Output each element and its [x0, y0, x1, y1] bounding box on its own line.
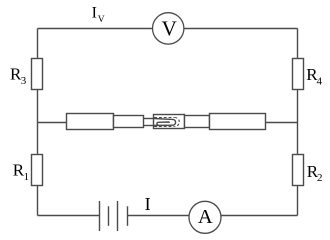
thermometer neck left — [114, 116, 144, 128]
voltmeter V — [153, 13, 184, 44]
wire right vertical middle (R4 to R2) — [297, 90, 299, 155]
battery plate long 2 — [117, 201, 119, 231]
wire left vertical lower (R1 to bottom corner) — [37, 186, 39, 216]
wire ammeter to bottom-right corner — [220, 215, 297, 217]
wire left vertical middle (R3 to R1) — [37, 90, 39, 155]
lead wire bottom — [144, 125, 154, 127]
sensor sheath dashed top — [154, 117, 174, 119]
battery plate short 1 — [108, 206, 110, 226]
wire bottom-left to battery — [38, 215, 100, 217]
wire battery to ammeter — [128, 215, 190, 217]
resistor R3 — [32, 59, 43, 90]
sensing element hairpin inner fold — [157, 122, 169, 125]
battery plate long 1 — [99, 201, 101, 231]
svg-text:A: A — [198, 206, 213, 228]
label R3 — [10, 64, 27, 86]
wire top-left to voltmeter — [38, 28, 154, 30]
thermometer body box left — [67, 114, 114, 130]
svg-text:4: 4 — [317, 75, 323, 87]
resistor R1 — [32, 155, 43, 186]
thermometer body box right — [210, 114, 266, 130]
wire voltmeter to top-right corner — [184, 28, 298, 30]
label R4 — [306, 65, 322, 88]
svg-text:V: V — [98, 15, 105, 25]
wire middle left (node to thermometer body) — [38, 122, 67, 124]
ammeter A — [189, 201, 221, 233]
wire right vertical lower (R2 to bottom corner) — [297, 186, 299, 216]
label I — [145, 194, 151, 214]
svg-text:I: I — [145, 194, 151, 214]
sensor sheath dashed bottom — [154, 126, 174, 128]
sensing element hairpin outer — [154, 119, 176, 126]
label R1 — [13, 160, 29, 182]
sensor box — [154, 115, 185, 129]
sensor sheath dashed arc — [175, 118, 180, 127]
wire right vertical upper (corner to R4) — [297, 29, 299, 59]
resistor R4 — [293, 59, 304, 90]
label Iv — [92, 5, 105, 26]
thermometer neck right — [185, 116, 210, 128]
svg-text:1: 1 — [24, 171, 30, 183]
svg-text:V: V — [162, 16, 177, 40]
battery plate short 2 — [127, 206, 129, 226]
svg-text:2: 2 — [317, 172, 323, 184]
lead wire top — [144, 118, 154, 120]
resistor R2 — [293, 155, 304, 186]
wire left vertical upper (corner to R3) — [37, 29, 39, 59]
svg-text:I: I — [92, 5, 97, 22]
svg-text:3: 3 — [21, 75, 27, 87]
wire middle right (thermometer to node) — [266, 122, 298, 124]
label R2 — [307, 162, 323, 184]
